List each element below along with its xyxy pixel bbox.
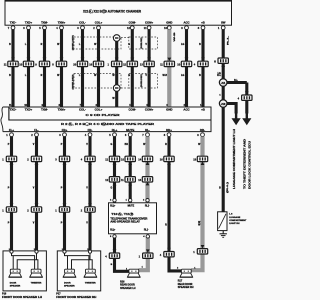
svg-text:COM-: COM- (129, 20, 137, 24)
connector inline connector BD1 RL+ (105, 249, 119, 258)
connector inline connector IG1 x130.2 (121, 156, 135, 165)
svg-text:+B: +B (201, 20, 205, 24)
pin SW pin 1 (changer) (218, 26, 225, 30)
pin TXM- pin 5 (changer) (39, 26, 46, 30)
pin TXM+ pin 4 (changer) (56, 26, 63, 30)
svg-text:G: G (128, 44, 130, 46)
svg-text:BR: BR (125, 144, 129, 146)
svg-text:RL+: RL+ (112, 128, 118, 132)
label title CD AUTOMATIC CHANGER (83, 10, 142, 14)
svg-text:GND: GND (166, 20, 172, 24)
wire theft deterrent drop (245, 83, 248, 114)
connector inline connector IF1 x203 (194, 58, 208, 67)
svg-text:RL(-: RL(- (145, 206, 150, 208)
svg-text:LG: LG (181, 75, 184, 77)
svg-text:G: G (128, 75, 130, 77)
door speaker (P16) (9, 269, 22, 278)
label T10 A, T11 B (111, 213, 133, 217)
svg-text:LUGGAGE COMPARTMENT LIGHT LH: LUGGAGE COMPARTMENT LIGHT LH (233, 129, 236, 189)
connector inline connector IF1 x169.3 (160, 58, 174, 67)
wire SW branch to theft deterrent (226, 81, 247, 84)
pin TXD+ pin 6 (changer) (23, 26, 30, 30)
wire GND changer to radio (167, 29, 171, 107)
pin COM+ pin 11 (changer) (144, 26, 151, 30)
continuation arrow to luggage compartment light LH (232, 112, 241, 125)
connector inline connector ID1 x64.5 (55, 203, 69, 212)
svg-text:SPEAKER LH: SPEAKER LH (120, 287, 136, 290)
tweeter (P16) (30, 269, 43, 278)
connector inline connector IF1 x149.1 (140, 58, 154, 67)
wire RL- radio to transceiver (145, 137, 149, 203)
wire COL+ changer to radio (97, 29, 100, 107)
svg-text:RR+: RR+ (166, 128, 172, 132)
svg-text:FRONT DOOR SPEAKER LH: FRONT DOOR SPEAKER LH (2, 296, 42, 299)
wire MUTE radio to transceiver (129, 137, 132, 203)
svg-text:TXD-: TXD- (10, 20, 17, 24)
pin GND pin 10 (changer) (164, 26, 171, 30)
label R2/R3/R4 RADIO AND TAPE PLAYER (61, 122, 155, 126)
svg-text:G: G (111, 188, 113, 190)
CD auto changer box X21/X22 (5, 0, 233, 25)
connector inline connector on theft line (238, 91, 252, 100)
svg-text:FRONT DOOR SPEAKER RH: FRONT DOOR SPEAKER RH (56, 296, 96, 299)
svg-text:J11: J11 (221, 81, 226, 85)
connector inline connector IF1 x186.5 (177, 58, 191, 67)
wire RR- radio to rear speaker RH (191, 137, 203, 271)
svg-text:SPEAKER: SPEAKER (64, 284, 75, 287)
shielded cable dashed box upper right (COM pair) (129, 37, 158, 49)
wire RR+ radio to rear speaker RH (169, 137, 182, 271)
svg-text:FL+: FL+ (9, 128, 15, 132)
connector inline connector IF1 x132.3 (123, 58, 137, 67)
svg-text:FR+: FR+ (62, 128, 68, 132)
connector inline connector IF1 x61.5 (52, 58, 66, 67)
connector inline connector IH1 x114.5 (105, 177, 119, 186)
svg-text:SPEAKER RH: SPEAKER RH (178, 286, 194, 289)
luggage compartment light RH box L6 (218, 212, 227, 231)
pin radio bottom pin FL- (31, 133, 38, 137)
connector inline connector IF1 x116.7 (108, 58, 122, 67)
ground symbol luggage light (220, 231, 227, 238)
pin radio bottom pin RL+ (109, 133, 116, 137)
connector inline connector IG1 x114.5 (105, 156, 119, 165)
svg-text:T10 A , T11 B: T10 A , T11 B (111, 213, 133, 216)
wire TXD- changer to radio (11, 29, 14, 107)
continuation arrow to theft deterrent ECU (242, 112, 251, 125)
pin COM- pin 12 (changer) (127, 26, 134, 30)
pin circle 1 P16 (10, 250, 13, 253)
connector inline connector IF1 x98.5 (89, 58, 103, 67)
wire shield link dashes (121, 38, 129, 89)
wire shield drain to radio (115, 91, 118, 108)
pin transceiver bottom pin 4 (146, 235, 149, 238)
shielded cable dashed box lower right (COM pair) (129, 74, 158, 89)
svg-text:TXD+: TXD+ (25, 108, 33, 112)
wire SW changer to junction (222, 29, 225, 79)
junction circle J11 (219, 79, 227, 87)
connector inline connector BE2 RR- (193, 245, 207, 254)
svg-text:W-B: W-B (174, 32, 176, 42)
wire FL- radio to speaker box LH (35, 137, 38, 251)
connector inline connector IF1 x13 (4, 58, 18, 67)
wire P17 negative internal (72, 251, 93, 269)
wire RL- transceiver to rear speaker LH (138, 236, 147, 270)
svg-text:(R-L): (R-L) (227, 181, 229, 193)
telephone transceiver and speaker relay box T10/T11 (109, 203, 157, 234)
svg-text:DOOR: DOOR (10, 283, 17, 285)
rear door speaker RH (180, 269, 193, 278)
front door speaker box P16 (3, 251, 46, 291)
wire TXD+ changer to radio (27, 29, 30, 107)
pin radio bottom pin FR- (85, 133, 92, 137)
svg-text:RL(-: RL(- (144, 229, 149, 231)
pin transceiver top pin 3 (146, 199, 149, 202)
junction circle J10 (219, 100, 227, 108)
svg-text:TXD+: TXD+ (25, 20, 33, 24)
connector inline connector IG1 x169 (160, 156, 174, 165)
wire FL+ radio to speaker box LH (10, 137, 13, 251)
svg-text:COL-: COL- (79, 108, 86, 112)
pin circle 1 P17 (63, 250, 66, 253)
connector inline connector IG1 x147.5 (138, 156, 152, 165)
svg-text:TXM+: TXM+ (58, 108, 66, 112)
shield ground circle upper (113, 35, 120, 42)
svg-text:(SHIELDED): (SHIELDED) (141, 74, 143, 87)
connector inline connector IG1 x90 (81, 156, 95, 165)
svg-text:SW: SW (221, 20, 226, 24)
svg-text:R 2 A , R 3 B , R 4 C RADIO A: R 2 A , R 3 B , R 4 C RADIO AND TAPE PLA… (61, 122, 155, 126)
wire SW branch to luggage light LH (226, 104, 237, 114)
svg-text:TO THEFT DETERRENT AND: TO THEFT DETERRENT AND (243, 138, 246, 189)
svg-text:LG: LG (181, 44, 184, 46)
wire +B changer to radio (201, 29, 204, 107)
wire shield drain upper (115, 41, 118, 86)
svg-text:R-L: R-L (217, 75, 221, 77)
svg-text:C 9 CD PLAYER: C 9 CD PLAYER (86, 113, 121, 117)
svg-text:LG: LG (218, 73, 221, 75)
wire TXM+ changer to radio (60, 29, 63, 107)
connector inline connector IF1 x82.5 (73, 58, 87, 67)
pin ACC pin 9 (changer) (181, 26, 188, 30)
svg-text:GND: GND (166, 108, 172, 112)
connector inline connector IG1 x11.5 (2, 156, 16, 165)
pin COL+ pin 2 (changer) (93, 26, 100, 30)
svg-text:COL+: COL+ (95, 108, 103, 112)
wire RL+ radio to transceiver (113, 137, 116, 203)
connector inline connector SW line (214, 58, 228, 67)
pin circle 2 P16 (35, 250, 38, 253)
svg-text:RL(+: RL(+ (110, 229, 116, 231)
door speaker (P17) (63, 269, 76, 278)
svg-text:FR-: FR- (88, 128, 93, 132)
svg-text:TXD-: TXD- (10, 108, 17, 112)
svg-text:COM+: COM+ (145, 108, 154, 112)
svg-text:TWEETER: TWEETER (31, 283, 42, 285)
wire SW junction link (222, 83, 225, 104)
svg-text:G: G (111, 144, 113, 146)
wire P16 negative internal (17, 251, 38, 269)
svg-text:RL-: RL- (145, 128, 150, 132)
svg-text:W-B: W-B (163, 75, 168, 77)
pin transceiver top pin 2 (113, 199, 116, 202)
shielded cable dashed box lower left (COL pair) (74, 74, 121, 89)
wire P17 internal + feed (65, 251, 89, 269)
pin TXD- pin 7 (changer) (8, 26, 15, 30)
wire SW to luggage compartment light RH (222, 107, 225, 212)
svg-text:J10: J10 (221, 102, 226, 106)
svg-text:RL(+: RL(+ (110, 206, 116, 208)
wire ACC changer to radio (185, 29, 188, 107)
connector inline connector IG1 x36.5 (27, 156, 41, 165)
tweeter (P17) (84, 269, 97, 278)
svg-text:(SHIELDED): (SHIELDED) (73, 35, 75, 50)
svg-text:LIGHT RH: LIGHT RH (229, 223, 240, 225)
connector inline connector IG1 x202.5 (193, 156, 207, 165)
pin +B pin 8 (changer) (198, 26, 205, 30)
svg-text:MUTE: MUTE (126, 128, 134, 132)
pin transceiver top pin 1 (129, 199, 132, 202)
wire COM- changer to radio (131, 29, 134, 107)
pin radio bottom pin RL- (142, 133, 149, 137)
svg-text:+B: +B (201, 108, 205, 112)
pin radio bottom pin RR+ (164, 133, 171, 137)
pin radio bottom pin FL+ (6, 133, 13, 137)
connector inline connector ID1 x36.5 (27, 203, 41, 212)
connector inline connector IF1 x44.5 (35, 58, 49, 67)
svg-text:MUTE: MUTE (128, 206, 135, 208)
svg-text:DOOR: DOOR (64, 283, 71, 285)
svg-text:SPEAKER: SPEAKER (10, 284, 21, 287)
connector inline connector BD2 RL- (139, 249, 153, 258)
svg-text:TXM-: TXM- (41, 108, 48, 112)
svg-text:FL-: FL- (34, 128, 39, 132)
connector inline connector BE1 RR+ (160, 248, 174, 257)
svg-text:COL-: COL- (79, 20, 86, 24)
pin COL- pin 3 (changer) (77, 26, 84, 30)
connector inline connector IG1 x64.5 (55, 156, 69, 165)
radio and tape player box R2/R3/R4 (C9 CD player) (1, 107, 211, 132)
svg-text:AND SPEAKER RELAY: AND SPEAKER RELAY (110, 220, 140, 223)
wire FR+ radio to speaker box RH (63, 137, 66, 251)
svg-text:LUGGAGE: LUGGAGE (229, 216, 241, 219)
wire TXM- changer to radio (43, 29, 46, 107)
svg-text:ACC: ACC (183, 108, 190, 112)
svg-text:(SHIELDED): (SHIELDED) (73, 74, 75, 89)
pin radio bottom pin RR- (197, 133, 204, 137)
svg-text:H: H (214, 60, 216, 64)
svg-text:COM+: COM+ (145, 20, 154, 24)
svg-text:COM-: COM- (128, 108, 136, 112)
svg-text:RR-: RR- (200, 128, 205, 132)
wire COL- changer to radio (81, 29, 84, 107)
wire COM+ changer to radio (148, 29, 151, 107)
shielded cable dashed box upper left (COL pair) (74, 37, 121, 49)
rear door speaker LH (127, 269, 140, 278)
svg-text:B-L: B-L (234, 80, 238, 82)
pin circle 2 P17 (88, 250, 91, 253)
svg-text:TWEETER: TWEETER (85, 283, 96, 285)
svg-text:COL+: COL+ (95, 20, 103, 24)
pin transceiver bottom pin 5 (113, 235, 116, 238)
svg-text:DOOR LOCK CONTROL ECU: DOOR LOCK CONTROL ECU (249, 140, 251, 189)
connector inline connector IH1 x130.2 (121, 177, 135, 186)
connector inline connector IH1 x147.5 (138, 177, 152, 186)
svg-text:ACC: ACC (183, 20, 189, 24)
connector inline connector IF1 x28.5 (19, 58, 33, 67)
connector inline connector ID1 x11.5 (2, 203, 16, 212)
wire FR- radio to speaker box RH (88, 137, 91, 251)
pin radio bottom pin MUTE (125, 133, 132, 137)
svg-text:TXM-: TXM- (41, 20, 48, 24)
wire RL+ transceiver to rear speaker LH (115, 236, 130, 271)
svg-text:COMPARTMENT: COMPARTMENT (229, 219, 247, 222)
connector inline connector ID1 x90 (81, 203, 95, 212)
svg-text:(SHIELDED): (SHIELDED) (141, 37, 143, 48)
pin radio bottom pin FR+ (59, 133, 66, 137)
svg-text:TELEPHONE TRANSCEIVER: TELEPHONE TRANSCEIVER (110, 217, 147, 220)
front door speaker box P17 (57, 251, 100, 291)
svg-text:TXM+: TXM+ (58, 20, 66, 24)
wire P16 internal + feed (12, 251, 35, 269)
shield ground circle lower (113, 85, 120, 92)
